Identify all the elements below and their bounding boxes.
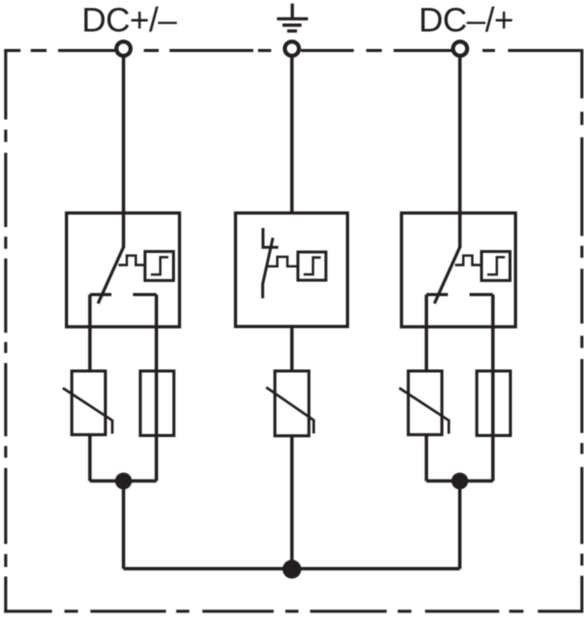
- svg-text:DC+/–: DC+/–: [82, 1, 177, 39]
- svg-text:DC–/+: DC–/+: [419, 1, 514, 39]
